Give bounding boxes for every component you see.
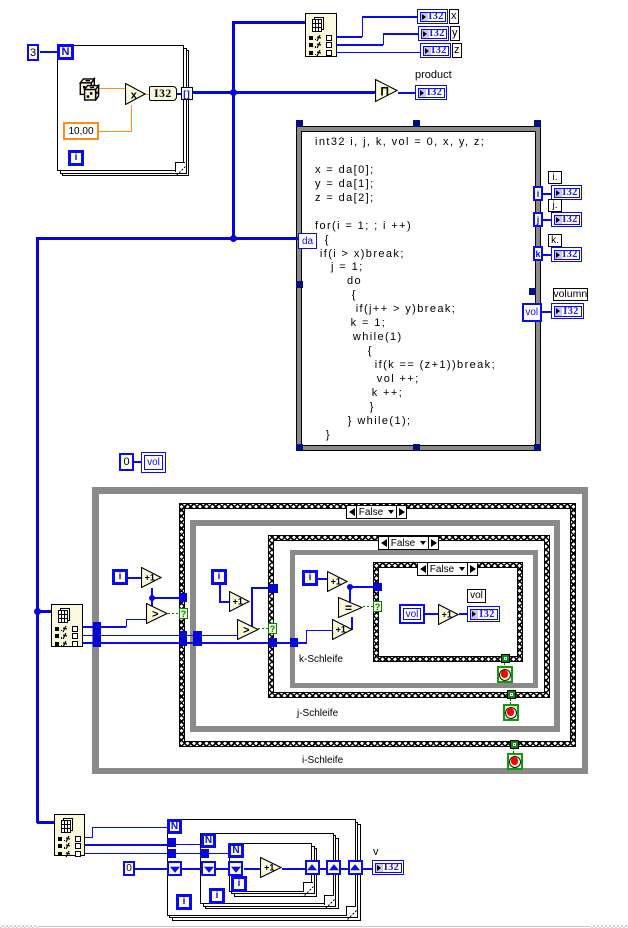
- i terminal loop 1: [68, 150, 84, 166]
- bottom for loop C frame: [234, 848, 318, 897]
- wire 0 to SR A: [134, 868, 167, 870]
- constant 0 (bottom): [123, 861, 135, 876]
- wire 10,00 horizontal: [99, 131, 131, 132]
- bottom for loop B frame: [205, 838, 339, 910]
- wire SR up B to A: [341, 868, 348, 870]
- case selector 1: [346, 505, 407, 519]
- wire row3 g: [306, 630, 334, 632]
- greater-than node (j loop): [237, 619, 259, 640]
- thick wire down to da junction: [232, 92, 235, 239]
- green tunnel case2: [507, 690, 516, 699]
- index array node 3: [54, 814, 85, 856]
- wire 0 to vol local: [133, 461, 141, 463]
- wire y out b: [383, 33, 385, 45]
- wire row1 a: [83, 626, 126, 628]
- wire k out: [543, 254, 551, 256]
- wire product node to indicator: [398, 92, 415, 94]
- boolean wire k loop: [363, 606, 374, 607]
- +1 increment lower (k loop): [332, 619, 353, 640]
- tunnel loop A row3: [167, 849, 176, 858]
- tunnel i-loop T1: [93, 622, 101, 630]
- selector terminal case 1: [179, 608, 188, 619]
- tunnel case1 row3: [180, 639, 188, 647]
- wire SR C to +1: [216, 868, 228, 870]
- label product: [415, 69, 452, 81]
- wire ia3 row3 b: [175, 853, 201, 855]
- label k-Schleife: [299, 654, 343, 665]
- local variable vol (read): [399, 604, 425, 624]
- svg-text:+1: +1: [442, 610, 452, 620]
- tunnel k-loop row3: [290, 638, 299, 647]
- indicator x I32: [417, 9, 448, 24]
- wire SR B to SR C: [244, 868, 260, 870]
- wire vol out: [542, 311, 551, 313]
- N terminal loop C: [228, 843, 244, 858]
- indicator i I32: [551, 185, 582, 200]
- thick wire left toward left rail: [36, 237, 234, 240]
- wire to greater (i loop): [151, 599, 153, 607]
- tunnel for loop 1 indexing: [181, 87, 193, 100]
- indicator y I32: [418, 26, 449, 41]
- indicator product I32: [415, 85, 447, 100]
- da input terminal: [298, 233, 317, 249]
- wire +1 down (i loop): [151, 588, 153, 598]
- svg-text:>: >: [243, 624, 249, 636]
- tunnel loop B row3: [200, 849, 209, 858]
- wire multiply to I32 conv: [145, 94, 150, 95]
- svg-text:Π: Π: [380, 84, 389, 98]
- shift register down C: [228, 861, 243, 876]
- label vol: [467, 589, 486, 603]
- i terminal (k loop): [302, 570, 318, 586]
- label volumn: [553, 288, 589, 301]
- thick wire left rail down: [36, 237, 39, 823]
- wire j out: [543, 219, 551, 221]
- i terminal (i loop): [112, 569, 128, 585]
- wire i to +1 (k loop): [318, 578, 327, 580]
- wire y out c: [383, 33, 419, 35]
- case selector 2: [378, 536, 439, 550]
- +1 increment (bottom): [260, 857, 282, 878]
- handle top-mid: [413, 120, 420, 127]
- bottom for loop A frame: [172, 824, 361, 921]
- label i-Schleife: [302, 755, 343, 766]
- tunnel case1 bool in: [179, 593, 187, 602]
- dice random number icon: [79, 76, 100, 101]
- wire equals to +1 lower (k loop): [351, 617, 353, 630]
- svg-text:x: x: [131, 89, 138, 101]
- svg-text:>: >: [152, 608, 158, 620]
- indicator z I32: [420, 43, 451, 58]
- constant 0 (vol init): [119, 453, 134, 471]
- wire SR A to SR B: [182, 868, 201, 870]
- wire row1 b: [126, 619, 128, 627]
- wire x out a: [336, 36, 362, 38]
- label i.: [548, 171, 562, 184]
- wire x out c: [362, 16, 418, 18]
- +1 increment upper (k loop): [327, 571, 348, 592]
- wire 3 to N: [40, 51, 57, 53]
- tunnel i-loop T2: [93, 630, 101, 638]
- formula node code text: [315, 136, 496, 443]
- stop button j loop: [503, 704, 519, 721]
- multiply array elements node: [375, 79, 398, 102]
- svg-text:+1: +1: [145, 573, 155, 583]
- thick wire up to index array: [232, 21, 235, 92]
- shift register up A: [348, 860, 363, 875]
- label y: [450, 26, 461, 41]
- case structure 1 (outer) frame: [179, 503, 576, 747]
- greater-than node (i loop): [146, 603, 168, 624]
- handle top-left: [296, 120, 303, 127]
- green tunnel case3: [501, 654, 510, 663]
- thick wire tunnel to junction: [192, 91, 376, 94]
- wire ia3 row2 inside: [175, 844, 202, 846]
- label v: [373, 846, 379, 858]
- i terminal loop B: [209, 888, 225, 904]
- shift register up C: [305, 860, 320, 875]
- junction dot k loop: [347, 584, 353, 590]
- thick wire to index array 1: [232, 21, 305, 24]
- while loop i-Schleife frame: [92, 487, 588, 774]
- boolean wire i stop: [513, 748, 514, 754]
- boolean wire i loop: [168, 613, 179, 614]
- while loop j-Schleife frame: [190, 520, 560, 732]
- wire ia3 row1 a: [84, 837, 92, 839]
- svg-text:+1: +1: [336, 625, 346, 635]
- wire ia3 row1 c: [92, 827, 169, 829]
- indicator volumn I32: [551, 303, 584, 319]
- wire vol local to +1: [425, 613, 438, 615]
- wire row3 a: [83, 642, 298, 644]
- label j-Schleife: [297, 708, 338, 719]
- i terminal (j loop): [211, 569, 227, 585]
- +1 increment (j loop): [229, 591, 250, 612]
- svg-text:=: =: [345, 601, 352, 615]
- formula output terminal vol: [522, 303, 543, 322]
- wire SR up A to v: [363, 868, 373, 870]
- label z: [452, 43, 463, 58]
- formula output terminal i: [533, 186, 543, 201]
- wire i to +1 (i loop): [128, 577, 141, 579]
- junction dot at index array 2: [34, 608, 41, 615]
- indicator j I32: [551, 212, 582, 227]
- scrollbar strip: [37, 926, 628, 927]
- boolean wire k stop: [504, 663, 505, 669]
- tunnel j-loop row2: [193, 631, 202, 639]
- indicator k I32: [551, 247, 582, 262]
- boolean wire j loop: [258, 628, 269, 629]
- wire +1 to tunnel (j loop): [251, 587, 269, 589]
- wire i out: [543, 193, 551, 195]
- thick wire to index array 2: [39, 610, 51, 613]
- shift register down B: [201, 861, 216, 876]
- wire ia3 row2: [84, 844, 168, 846]
- handle bottom-left: [296, 444, 303, 451]
- junction dot i loop: [149, 595, 155, 601]
- svg-text:+1: +1: [264, 863, 274, 873]
- stop button k loop: [497, 666, 513, 683]
- multiply node loop 1: [125, 83, 146, 105]
- index array node 1: [305, 13, 337, 57]
- constant 3: [27, 44, 39, 61]
- index array node 2: [51, 604, 83, 647]
- wire x out b: [362, 16, 364, 37]
- +1 increment (case 3): [438, 604, 459, 625]
- wire down to equals (k loop): [349, 586, 351, 602]
- constant 10,00: [63, 122, 99, 140]
- i terminal loop C: [231, 876, 247, 892]
- thick wire to index array 3: [37, 821, 55, 824]
- svg-text:+1: +1: [233, 597, 243, 607]
- formula output terminal j: [533, 212, 543, 227]
- junction dot at da branch: [230, 235, 237, 242]
- shift register up B: [326, 860, 341, 875]
- wire dice to multiply: [97, 88, 125, 89]
- wire to tunnel (i loop): [154, 597, 180, 599]
- wire +1 to tunnel (k loop): [350, 586, 375, 588]
- wire ia3 row3 a: [84, 853, 168, 855]
- wire SR up C to B: [320, 868, 327, 870]
- tunnel loop A row2: [167, 838, 176, 847]
- wire ia3 row3 c: [208, 853, 229, 855]
- formula output terminal k: [533, 246, 543, 261]
- wire row1 c: [126, 619, 148, 621]
- wire i to +1 (j loop): [219, 601, 229, 603]
- N terminal loop 1: [57, 44, 74, 60]
- stop button i loop: [507, 753, 523, 770]
- tunnel i-loop T3: [93, 638, 101, 646]
- handle bottom-mid: [413, 444, 420, 451]
- wire conv to tunnel: [176, 93, 181, 95]
- i terminal loop A: [176, 894, 192, 910]
- wire i down (j loop): [219, 585, 221, 601]
- while loop k-Schleife frame: [290, 550, 538, 688]
- indicator vol I32: [467, 606, 500, 622]
- boolean wire j stop: [510, 699, 511, 705]
- thick wire to da terminal: [234, 237, 298, 240]
- green tunnel case1: [510, 740, 519, 749]
- +1 increment (i loop): [141, 567, 162, 588]
- wire +1 to SR up C: [282, 868, 305, 870]
- I32 conversion node: [149, 86, 177, 101]
- wire z out: [336, 52, 420, 54]
- junction dot at product branch: [230, 89, 237, 96]
- formula node frame: [296, 126, 541, 451]
- label x: [449, 9, 460, 24]
- tunnel case2 row3: [269, 638, 278, 647]
- handle top-right: [534, 120, 541, 127]
- tunnel case3 bool in: [374, 583, 383, 591]
- wire row3 f: [306, 630, 308, 644]
- tunnel case1 row2: [180, 631, 188, 639]
- wire 10,00 vertical: [131, 105, 132, 132]
- case selector 3: [417, 562, 478, 576]
- indicator v I32: [372, 860, 404, 875]
- svg-text:+1: +1: [331, 577, 341, 587]
- wire row2: [83, 635, 240, 637]
- local variable vol (write): [141, 452, 166, 473]
- tunnel case2 bool in: [269, 584, 278, 593]
- wire ia3 row1 b: [92, 827, 94, 839]
- wire +1 to vol indicator: [459, 613, 467, 615]
- shift register down A: [167, 861, 182, 876]
- for loop 1 frame: [62, 50, 189, 176]
- handle mid-left: [296, 281, 303, 288]
- case structure 2 (middle) frame: [268, 535, 550, 698]
- selector terminal case 3: [373, 601, 382, 612]
- label k.: [548, 234, 562, 247]
- N terminal loop B: [201, 833, 216, 848]
- equals node (k loop): [338, 597, 363, 618]
- handle mid-right: [529, 288, 536, 295]
- handle bottom-right: [534, 444, 541, 451]
- case structure 3 (inner) frame: [373, 562, 523, 662]
- N terminal loop A: [167, 819, 182, 834]
- label j.: [548, 199, 562, 212]
- wire y out a: [336, 44, 383, 46]
- selector terminal case 2: [268, 623, 277, 634]
- tunnel j-loop row3: [193, 639, 202, 647]
- wire +1 up (j loop): [251, 587, 253, 627]
- wire row3 e: [297, 642, 307, 644]
